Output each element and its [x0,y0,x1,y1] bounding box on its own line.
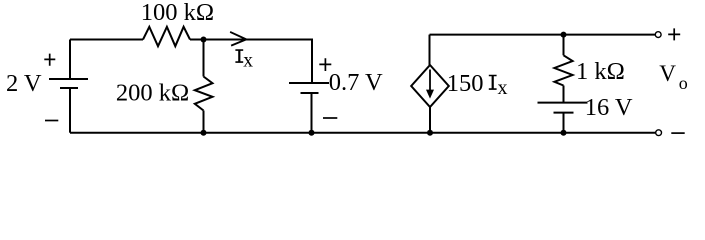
resistor R2 200 kOhm [195,77,213,111]
plus sign output [668,28,680,40]
glyph I of Ix current label [235,50,243,62]
terminal top output [655,32,661,38]
svg-text:V: V [659,61,676,87]
wire bottom rail [70,132,656,134]
svg-text:o: o [679,73,688,93]
wire 1k/16V branch top [563,35,565,56]
wire left vertical below 2V [69,88,71,133]
svg-text:2 V: 2 V [6,70,42,97]
svg-text:0.7 V: 0.7 V [329,69,383,96]
resistor R1 100 kOhm [143,27,190,46]
wire right loop top rail [430,34,656,36]
wire below 16V battery [563,113,565,133]
glyph I of 150 Ix label [489,76,497,90]
wire left vertical above 2V [69,40,71,80]
plus sign 2V [44,54,55,66]
dependent source F1 diamond [411,65,449,107]
minus sign 0.7V [323,117,337,119]
svg-text:16 V: 16 V [585,94,633,121]
dependent source arrow shaft [429,70,431,91]
junction dot node bottom under 16V [561,130,567,136]
wire top rail to 0.7V corner [190,40,312,84]
battery V1 2V short plate [60,87,78,89]
wire top-left rail [70,39,143,41]
wire 200k branch top [203,40,205,77]
junction dot node bottom under source [427,130,433,136]
terminal bottom output [656,130,662,136]
wire between 1k and 16V [563,86,565,103]
svg-text:x: x [243,51,253,72]
minus sign 2V [45,120,58,122]
svg-text:x: x [498,77,508,99]
battery V1 2V long plate [49,78,88,80]
arrow Ix on top wire [231,32,246,45]
svg-text:200 kΩ: 200 kΩ [116,79,189,106]
battery V2 0.7V long plate [289,82,329,84]
wire below dependent source [429,107,431,133]
resistor R3 1 kOhm [554,55,572,85]
wire below 0.7V battery [311,93,313,133]
junction dot node bottom under 200k [201,130,207,136]
battery V2 0.7V short plate [301,92,319,94]
minus sign output [671,132,684,134]
dependent source arrow head [426,90,434,99]
wire 200k branch bottom [203,111,205,133]
svg-text:1 kΩ: 1 kΩ [576,58,625,85]
wire above dependent source [429,35,431,65]
junction dot node top under 1k branch [561,32,567,38]
junction dot node bottom under 0.7V [309,130,315,136]
svg-text:100 kΩ: 100 kΩ [141,0,214,26]
plus sign 0.7V [319,58,331,71]
battery V3 16V short plate [554,112,574,114]
battery V3 16V long plate [538,102,588,104]
junction dot node A top [201,37,207,43]
svg-text:150: 150 [447,70,484,97]
